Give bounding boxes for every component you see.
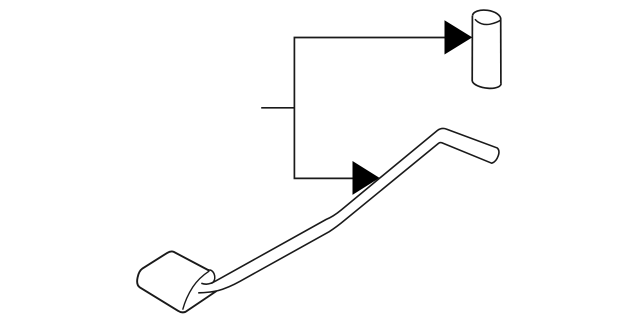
pad corner tick	[208, 269, 211, 272]
cylinder body	[472, 16, 501, 89]
cylinder top rim arc	[475, 19, 501, 24]
cylinder top face arc	[473, 10, 501, 19]
callout leader line	[294, 38, 444, 179]
arrow to rod	[353, 161, 380, 195]
callout tick	[261, 107, 294, 109]
arrow to cylinder	[445, 20, 473, 54]
pedal rod outline	[198, 128, 499, 292]
pedal pad outline	[137, 251, 216, 312]
pedal pad side-face edge	[183, 271, 210, 310]
pedal rod end hook	[210, 270, 215, 284]
